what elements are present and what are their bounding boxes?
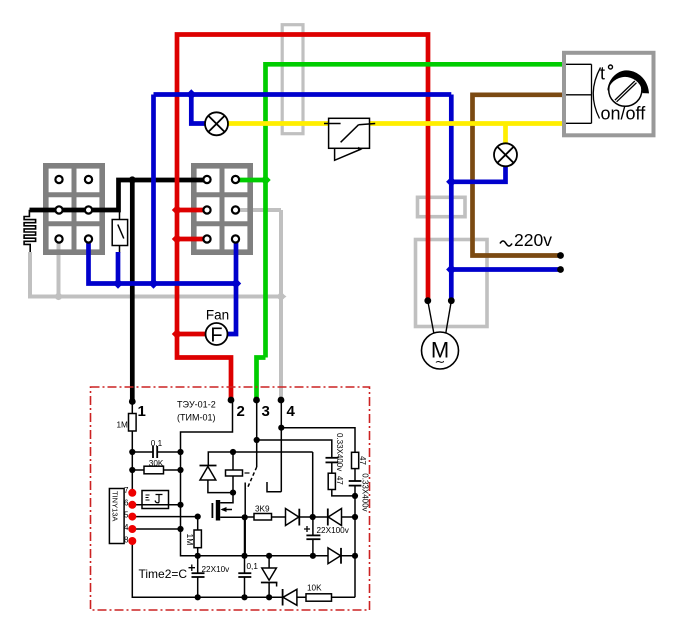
capacitor C6 0.1 — [244, 556, 246, 573]
svg-text:ТЭУ-01-2: ТЭУ-01-2 — [177, 400, 216, 410]
wire: node to IC pin7 — [131, 470, 133, 493]
label ~220v — [500, 241, 512, 246]
svg-text:F: F — [210, 325, 222, 347]
junction gray node — [55, 293, 62, 300]
svg-text:5: 5 — [124, 511, 129, 520]
relay moving contact blade — [247, 467, 257, 489]
junction blue node — [446, 177, 456, 187]
junction red node — [172, 205, 182, 215]
wire IC pin4 to node — [132, 528, 180, 530]
IC pin numbers — [124, 486, 129, 545]
relay fixed contact hook — [267, 482, 281, 492]
wire blue: from thermal cutout down — [116, 252, 121, 284]
svg-text:∼: ∼ — [435, 354, 446, 369]
switch arc — [593, 68, 600, 119]
diode VD3 — [313, 516, 328, 518]
svg-text:t: t — [600, 63, 605, 83]
PCB terminal 4 — [278, 397, 285, 404]
capacitor C5 22X10v electrolytic — [197, 556, 199, 573]
wire brown: thermostat to 220v line — [473, 95, 565, 256]
svg-text:7: 7 — [124, 486, 129, 495]
junction red node — [172, 234, 182, 244]
relay coil K1 — [232, 452, 234, 470]
capacitor C3 0.33X400v chain B — [349, 480, 362, 482]
capacitor C4 22X100v electrolytic — [312, 517, 314, 535]
wire: terminal 3 to switch pivot — [256, 400, 258, 467]
svg-text:2: 2 — [237, 403, 245, 420]
svg-text:22X100v: 22X100v — [317, 526, 350, 535]
PCB terminal 2 — [228, 397, 235, 404]
svg-text:47: 47 — [358, 456, 367, 465]
svg-text:1: 1 — [138, 403, 146, 420]
wire red: feed to fan — [177, 332, 206, 337]
contact post — [244, 483, 246, 557]
junction blue node — [446, 264, 456, 274]
wire gray arrow end — [281, 293, 287, 301]
resistor R1 1M vertical from terminal 1 — [131, 402, 133, 414]
resistor R4 47 chain B — [352, 452, 359, 468]
svg-text:0.33X400v: 0.33X400v — [335, 433, 344, 471]
svg-text:6: 6 — [124, 499, 129, 508]
wire red: jog to PCB terminal 2 — [177, 334, 231, 399]
wire: terminal 4 to fixed contact — [280, 400, 282, 492]
knob dial arc — [607, 70, 649, 93]
svg-text:8: 8 — [124, 536, 129, 545]
svg-text:0,1: 0,1 — [151, 439, 163, 448]
junction green node — [260, 175, 270, 185]
svg-text:47: 47 — [335, 476, 344, 485]
svg-text:0,1: 0,1 — [247, 562, 259, 571]
terminal block TB2 (center, 2x3) — [194, 166, 250, 252]
svg-text:4: 4 — [124, 523, 129, 532]
mid ground rail — [181, 529, 198, 556]
PCB node dots — [129, 425, 358, 601]
wire red: main loop top — [177, 35, 428, 337]
PCB component labels — [111, 421, 370, 593]
top rail of relay/diode branch — [208, 452, 312, 466]
wire green: jog to PCB terminal 3 — [257, 358, 266, 400]
svg-text:on/off: on/off — [601, 104, 647, 124]
svg-text:3: 3 — [262, 403, 270, 420]
signal lamp HL2 (circle with X) — [494, 143, 517, 166]
resistor R7 10K — [306, 594, 332, 601]
wire yellow: branch down to lamp2 — [503, 124, 508, 145]
terminal block TB1 (left, 2x3) — [46, 166, 102, 252]
wire gray: horizontal run to PCB terminal 4 drop — [56, 295, 281, 299]
svg-text:Time2=C: Time2=C — [139, 567, 188, 581]
capacitor C2 0.33X400v chain A — [326, 457, 339, 459]
svg-text:220v: 220v — [514, 230, 552, 250]
wire yellow: lamp1 to thermostat box — [227, 121, 564, 126]
wire IC pin6 to node — [132, 504, 180, 506]
wire green: top run to thermostat box — [266, 64, 565, 357]
wire black: heater feed through TB1 middle row — [30, 180, 208, 210]
MOSFET Q1 — [216, 500, 220, 521]
wire gray: heater return down from coil — [30, 252, 58, 297]
right vertical rail — [354, 486, 356, 598]
junction black node — [129, 176, 136, 183]
rail mid horizontal — [198, 555, 355, 557]
PCB controller board dashed outline — [91, 387, 370, 610]
junction blue node — [148, 278, 158, 288]
junction gray node — [277, 293, 284, 300]
motor M with leads — [422, 297, 459, 369]
wire blue: lamp2 return — [451, 166, 505, 182]
resistor R6 1M gate pulldown — [197, 517, 199, 530]
svg-text:10K: 10K — [307, 584, 322, 593]
thermostat / on-off control box — [564, 53, 654, 136]
thermal cutout switch (small box with diagonal) — [112, 210, 127, 253]
wire red: stub to TB2 bottom-left — [177, 237, 207, 242]
zener diode VD4 — [268, 556, 270, 568]
thermostat input bracket — [566, 64, 601, 123]
TB2 terminal screws — [203, 176, 239, 243]
wire IC pin5 to gate node — [132, 516, 197, 518]
power regulator (box with diagonal, on yellow wire) — [324, 118, 375, 160]
wire gray: block2 middle-right terminal to the right — [236, 208, 282, 212]
junction red node — [172, 329, 182, 339]
rail from T4 node to snubber chain B — [281, 428, 355, 453]
heating element coil (comb symbol, far left) — [24, 210, 35, 252]
svg-text:Fan: Fan — [206, 308, 229, 323]
wire: terminal 2 drop to network — [181, 400, 233, 452]
diode VD6 on mid rail — [328, 548, 341, 564]
diode VD2 — [286, 509, 299, 526]
junction blue node — [231, 278, 241, 288]
PCB terminal 3 — [253, 397, 260, 404]
connector outline (tall gray rectangle, top center) — [282, 25, 303, 134]
svg-text:(ТИМ-01): (ТИМ-01) — [177, 413, 215, 423]
svg-text:TINY13A: TINY13A — [111, 491, 120, 521]
svg-text:4: 4 — [287, 403, 296, 420]
wire blue: 220v feed — [451, 267, 559, 272]
wire blue: main top run — [154, 92, 452, 97]
wire black: drop to PCB terminal 1 — [130, 180, 135, 401]
wire blue: right vertical to motor — [449, 95, 454, 301]
fan symbol F — [206, 308, 230, 347]
IC pin pads (red) — [128, 489, 136, 545]
TB1 terminal screws — [55, 176, 92, 243]
wire IC pin8 to ground rail — [132, 541, 355, 597]
vertical: contact post to mid rail crossing — [244, 517, 246, 556]
svg-text:1M: 1M — [117, 421, 129, 430]
capacitor C1 0.1 — [132, 451, 153, 453]
wire green: stub from TB2 top-right — [236, 178, 266, 183]
wire gray: vertical down to PCB terminal 4 — [279, 210, 283, 399]
wire blue: TB2 bottom-right down to fan — [227, 239, 236, 334]
wire blue: left vertical — [151, 95, 156, 284]
svg-text:30K: 30K — [149, 459, 164, 468]
wire blue: drop to signal lamp 1 — [191, 95, 206, 124]
220v supply terminals — [557, 252, 564, 259]
resistor R2 30K — [131, 452, 133, 470]
signal lamp HL1 (circle with X) — [205, 112, 228, 135]
junction blue node — [186, 89, 196, 99]
diode VD5 on ground rail — [282, 589, 284, 606]
rail from T3 node to snubber chain A — [257, 440, 332, 457]
rail center from C1 node to diode row — [312, 452, 314, 517]
opto-relay box — [142, 491, 169, 509]
PCB terminal 1 — [129, 398, 136, 405]
junction blue node — [113, 278, 123, 288]
resistor R3 47 chain A — [328, 473, 335, 489]
motor housing outline (large gray rectangle) — [416, 240, 488, 327]
diode VD1 flyback — [200, 465, 217, 467]
svg-text:3K9: 3K9 — [255, 505, 270, 514]
wire blue: TB1 bottom-right down and across — [89, 239, 237, 284]
connector outline (small gray rectangle above motor) — [418, 197, 466, 216]
svg-text:22X10v: 22X10v — [202, 565, 231, 574]
wire gray: from block1 bottom-left terminal down — [57, 239, 61, 297]
svg-text:1M: 1M — [185, 534, 195, 546]
resistor R5 3K9 — [254, 514, 272, 521]
svg-text:0.33X400v: 0.33X400v — [360, 473, 369, 511]
IC U1 TINY13A — [109, 489, 124, 544]
knob circle with slot — [609, 73, 642, 106]
wire red: stub to TB2 middle-left — [177, 208, 207, 213]
relay mechanical link dashes — [245, 472, 250, 474]
